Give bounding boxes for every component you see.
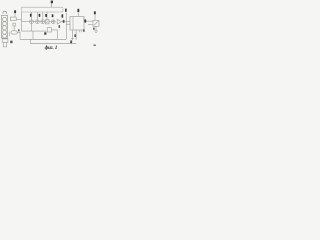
numeral 5 (filter F1) bbox=[45, 14, 47, 17]
pin wire node 2 bbox=[14, 13, 16, 17]
distributed line long box bbox=[21, 7, 63, 12]
wire bus tap y24 bbox=[66, 23, 70, 25]
numeral 18 (R2 below) bbox=[93, 28, 95, 30]
numeral 12 (R1 right) bbox=[84, 19, 86, 22]
numeral 7 (amp) bbox=[62, 14, 64, 17]
amplifier triangle bbox=[57, 19, 61, 24]
numeral 19 (above R2) bbox=[94, 11, 96, 14]
numeral 17 (rail B right) bbox=[70, 40, 72, 43]
detector box B1 bbox=[47, 28, 51, 32]
numeral 15 (pill) bbox=[18, 29, 20, 31]
small element below U2 bbox=[13, 23, 16, 26]
antenna loop arch bbox=[3, 11, 7, 14]
R1 leg left tick bbox=[71, 38, 74, 40]
ground under R2 stem bbox=[95, 26, 97, 31]
wire pill to down corner bbox=[17, 32, 20, 39]
wire bbox=[44, 21, 47, 23]
ground rail A bbox=[20, 38, 66, 40]
wire U2 to bus bbox=[16, 18, 21, 20]
mixer M3 circle-cross bbox=[41, 20, 45, 24]
numeral 20 (R1 bottom right) bbox=[83, 29, 85, 32]
mixer M2 circle-cross bbox=[36, 20, 40, 24]
filter box F1 bbox=[45, 20, 49, 24]
R1 leg left bbox=[72, 30, 74, 40]
wire R1 right up branch bbox=[84, 17, 93, 21]
wire bbox=[49, 21, 51, 23]
numeral 10 (B1 wire) bbox=[59, 25, 61, 28]
F1 internal cross bbox=[46, 20, 49, 23]
rail C corner down bbox=[45, 31, 47, 34]
reference numerals (dark blobs) bbox=[10, 1, 96, 46]
element circle E1 bbox=[2, 17, 6, 21]
R2 diagonal mark bbox=[94, 21, 98, 25]
numeral 9 (rail C) bbox=[44, 32, 46, 34]
vertical bus x66 bbox=[65, 13, 67, 40]
R1 small tick b bbox=[80, 30, 82, 32]
element circle E4 bbox=[2, 30, 6, 34]
pin up on R2 bbox=[94, 15, 96, 21]
element circle E3 bbox=[2, 26, 6, 30]
receiver box R1 bbox=[70, 17, 84, 31]
numeral 8 (bus) bbox=[65, 9, 67, 12]
svg-text:фиг. 1: фиг. 1 bbox=[45, 46, 58, 51]
wire left vertical bbox=[21, 12, 23, 31]
numeral 2 (antenna) bbox=[51, 1, 53, 4]
wire into mixer 1 bbox=[22, 21, 30, 23]
plug prong right bbox=[5, 42, 7, 44]
wire amp to right box bbox=[61, 21, 70, 23]
numeral 4 (mixer M2) bbox=[39, 14, 41, 17]
wire tall box to pill bbox=[8, 32, 10, 37]
ground under R2 bar 2 bbox=[95, 31, 97, 33]
element circle E2 bbox=[2, 22, 6, 26]
wire junction V2 bbox=[32, 31, 34, 39]
numeral 1 (left pin) bbox=[14, 10, 16, 13]
recorder box R2 bbox=[93, 20, 99, 26]
mixer M1 circle-cross bbox=[30, 20, 34, 24]
pin up on R1 bbox=[78, 13, 80, 16]
multi-element stack box bbox=[1, 15, 7, 38]
coupling box U2 bbox=[10, 17, 16, 20]
pin down mixer M1 bbox=[30, 24, 32, 32]
pin up mixer M2 bbox=[36, 12, 38, 20]
numeral 13 (R1 legs) bbox=[74, 34, 76, 37]
antenna pin bbox=[51, 3, 53, 7]
wire B1 to rail A bbox=[52, 30, 58, 39]
pin up filter F1 bbox=[46, 12, 48, 20]
stray mark bottom right bbox=[93, 45, 96, 46]
R1 internal divider bbox=[72, 17, 74, 31]
pin up mixer M1 bbox=[30, 12, 32, 20]
plug base cup bbox=[3, 44, 6, 46]
wire bbox=[33, 21, 35, 23]
feedback rail C bbox=[22, 30, 47, 32]
ground rail B bbox=[30, 43, 76, 45]
paper background bbox=[0, 0, 100, 51]
wire lower tap to R2 bbox=[88, 23, 93, 25]
R1 leg right bbox=[75, 30, 77, 40]
plug box bbox=[2, 39, 8, 42]
plug prong left bbox=[3, 42, 5, 44]
rail B drop bbox=[29, 39, 31, 43]
numeral 16 (amp out) bbox=[63, 20, 65, 23]
numeral 11 (R1 pin) bbox=[77, 9, 79, 12]
wire bbox=[13, 26, 15, 31]
oscillator pill bbox=[11, 31, 17, 34]
R1 small tick a bbox=[79, 30, 81, 32]
mixer M4 circle-cross bbox=[51, 20, 55, 24]
numeral 3 (mixer M1) bbox=[30, 14, 32, 17]
numeral 6 (mixer M4) bbox=[52, 14, 54, 17]
numeral 14 (plug) bbox=[10, 41, 12, 44]
pin up mixer M3 bbox=[42, 12, 44, 20]
wire bbox=[39, 21, 41, 23]
element circle E5 bbox=[2, 34, 6, 38]
ground under R2 bar bbox=[94, 30, 98, 32]
